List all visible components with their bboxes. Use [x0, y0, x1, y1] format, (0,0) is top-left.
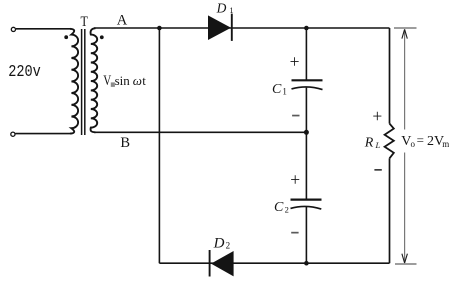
- wire top-left to primary: [16, 28, 71, 30]
- capacitor C2 curved plate: [291, 206, 322, 209]
- measurement top tick bar: [394, 27, 417, 29]
- wire right rail upper: [389, 28, 391, 124]
- measurement arrowhead up: [402, 29, 407, 38]
- svg-text:sin: sin: [115, 73, 131, 88]
- primary polarity dot: [64, 35, 68, 39]
- svg-text:220v: 220v: [8, 62, 41, 82]
- wire middle B rail: [94, 131, 306, 133]
- measurement arrowhead down: [402, 254, 408, 263]
- diode D1 triangle: [208, 15, 231, 40]
- measurement arrow line: [404, 31, 406, 262]
- terminal top-left: [11, 27, 15, 31]
- svg-text:V: V: [103, 71, 111, 88]
- svg-text:B: B: [120, 135, 130, 151]
- label minus RL: [374, 169, 381, 171]
- label Vm sin wt : gray subscript box: [111, 82, 115, 87]
- svg-text:C: C: [272, 82, 282, 97]
- transformer core line right: [84, 29, 86, 135]
- diode D1 cathode bar: [231, 14, 233, 41]
- svg-text:T: T: [80, 13, 88, 30]
- label minus C2: [291, 232, 298, 234]
- wire capacitor branch lower: [305, 207, 307, 263]
- svg-text:C: C: [274, 200, 284, 215]
- svg-text:1: 1: [282, 86, 287, 96]
- wire right rail lower: [389, 158, 391, 263]
- svg-text:m: m: [442, 139, 449, 149]
- label minus C1: [292, 115, 299, 117]
- svg-text:2: 2: [226, 241, 231, 251]
- svg-text:A: A: [117, 13, 128, 29]
- resistor RL zigzag: [385, 124, 394, 159]
- svg-text:+: +: [290, 51, 300, 71]
- measurement bottom tick bar: [395, 263, 417, 265]
- svg-text:D: D: [216, 0, 227, 15]
- svg-text:2: 2: [285, 205, 289, 215]
- svg-text:o: o: [411, 139, 416, 149]
- transformer T primary winding: [70, 29, 78, 134]
- wire vertical drop from A rail to bottom rail: [158, 28, 160, 263]
- svg-text:D: D: [213, 236, 225, 252]
- wire bottom rail: [159, 262, 389, 264]
- junction dot bottom at capacitor branch: [304, 261, 309, 266]
- wire bottom-left to primary: [16, 133, 72, 135]
- wire capacitor branch middle: [305, 88, 307, 200]
- diode D2 triangle: [211, 251, 234, 276]
- capacitor C1 top plate: [292, 79, 323, 81]
- wire top rail A to right: [94, 27, 390, 29]
- svg-text:=: =: [417, 132, 424, 147]
- svg-text:ω: ω: [133, 73, 142, 88]
- capacitor C2 top plate: [291, 199, 322, 201]
- junction dot top at capacitor branch: [304, 26, 309, 31]
- svg-text:+: +: [290, 170, 300, 190]
- svg-text:1: 1: [229, 5, 233, 15]
- junction dot middle rail at capacitor branch: [304, 130, 309, 135]
- transformer core line left: [81, 29, 83, 135]
- svg-text:R: R: [364, 136, 374, 151]
- terminal bottom-left: [11, 132, 15, 136]
- junction dot top at drop wire: [157, 26, 162, 31]
- capacitor C1 curved plate: [292, 87, 323, 90]
- transformer T secondary winding: [91, 28, 98, 132]
- svg-text:+: +: [372, 106, 382, 126]
- secondary polarity dot: [100, 35, 104, 39]
- svg-text:t: t: [142, 73, 146, 88]
- wire capacitor branch upper: [305, 28, 307, 80]
- diode D2 cathode bar: [209, 250, 211, 277]
- svg-text:L: L: [375, 140, 381, 150]
